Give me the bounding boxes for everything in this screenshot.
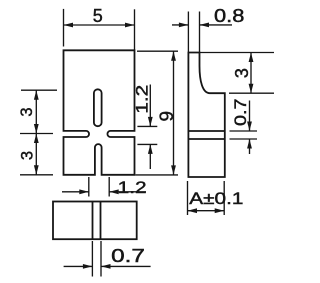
svg-text:3: 3 [232, 68, 252, 78]
svg-text:1.2: 1.2 [118, 178, 147, 197]
svg-text:0.7: 0.7 [111, 246, 145, 266]
svg-text:9: 9 [157, 111, 178, 122]
svg-text:5: 5 [93, 6, 103, 26]
svg-text:1.2: 1.2 [133, 85, 152, 114]
svg-text:0.8: 0.8 [214, 6, 244, 26]
svg-text:3: 3 [18, 107, 36, 116]
svg-text:0.7: 0.7 [231, 99, 250, 127]
svg-text:A±0.1: A±0.1 [189, 189, 243, 208]
svg-text:3: 3 [19, 151, 37, 160]
